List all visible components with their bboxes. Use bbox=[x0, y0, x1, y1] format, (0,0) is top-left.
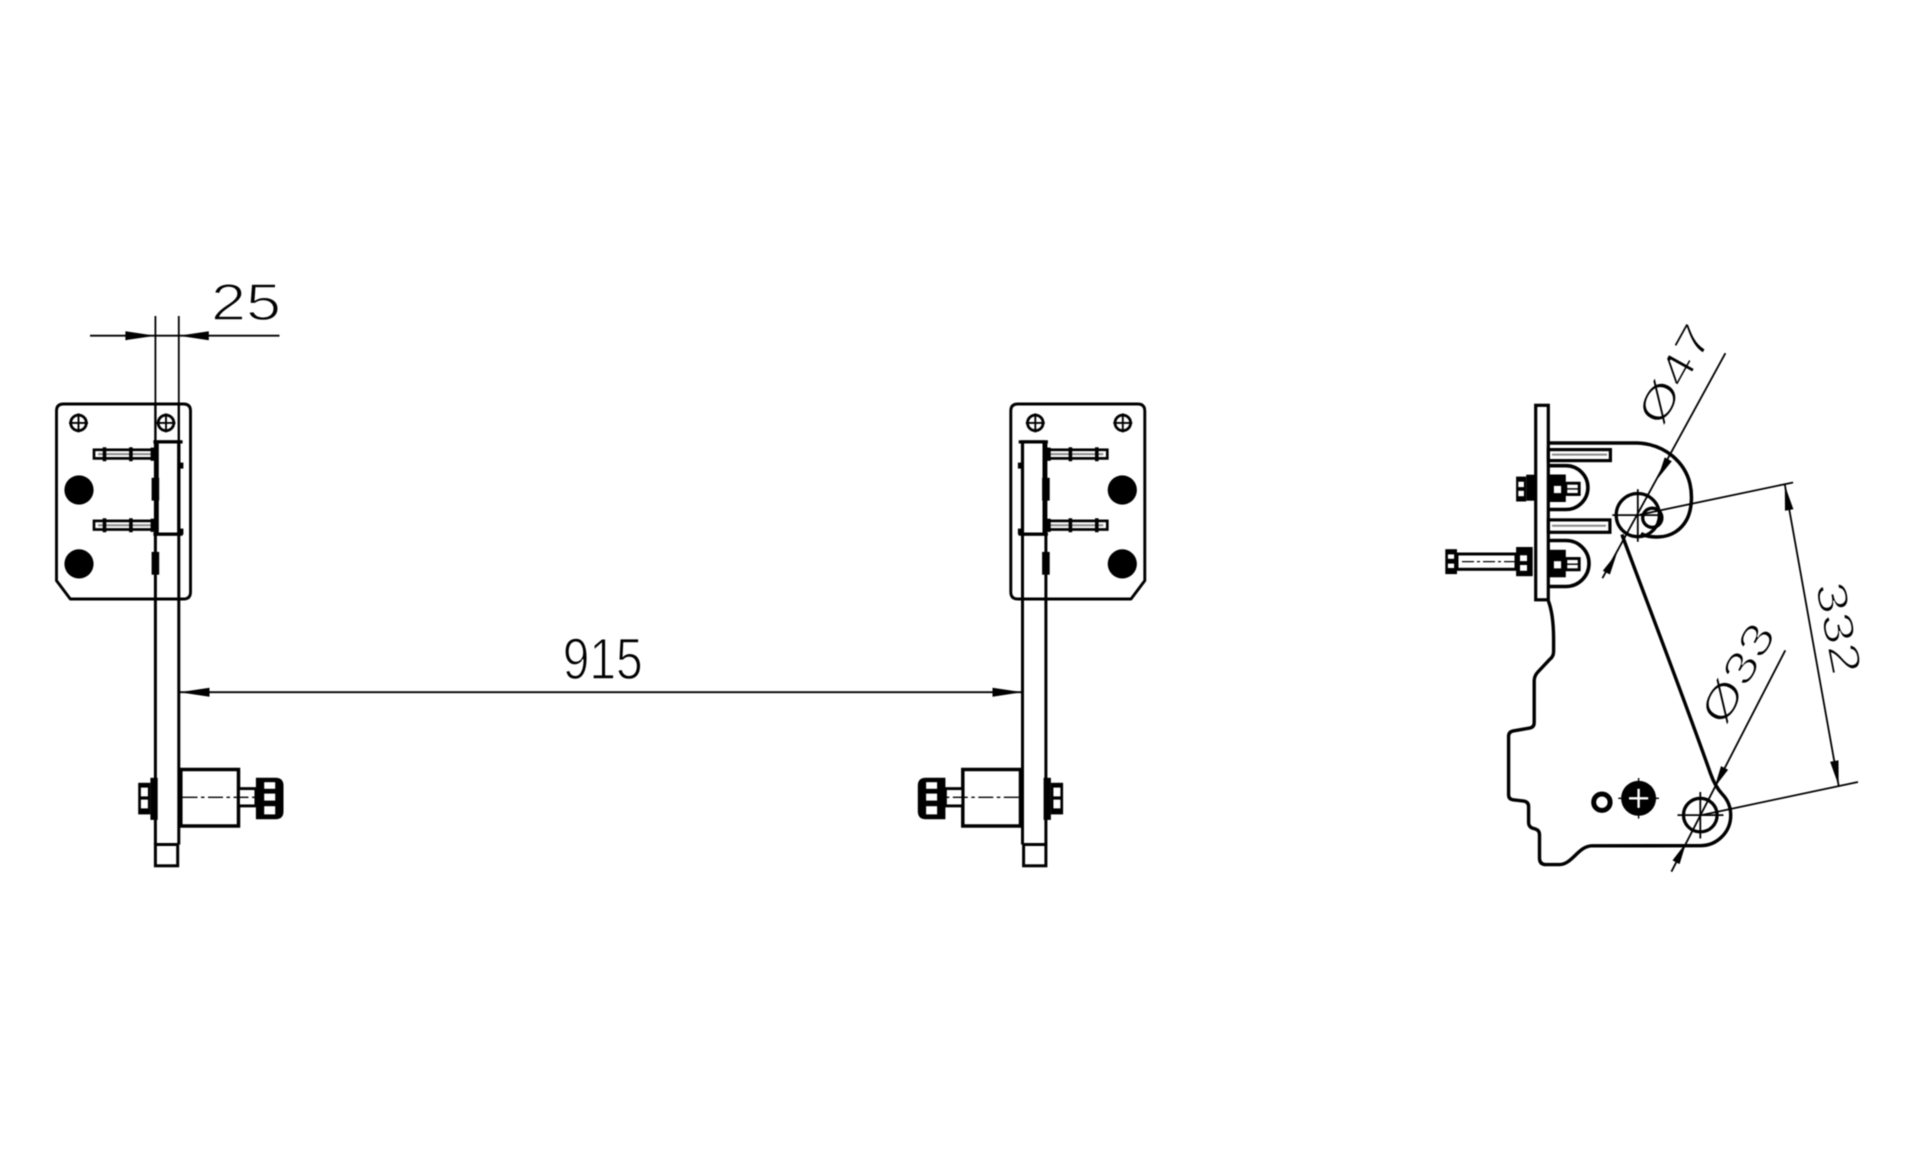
stud end marks right of bar bbox=[179, 463, 184, 469]
side: upper nut on right bbox=[1549, 475, 1566, 503]
side: lower hole centre cross bbox=[1678, 792, 1724, 839]
bar upper section bbox=[155, 404, 178, 442]
dia33 leader line bbox=[1671, 650, 1785, 871]
dia47 leader line bbox=[1602, 353, 1725, 578]
side: lower nut left bbox=[1516, 547, 1533, 576]
vertical flat bar bbox=[155, 442, 178, 845]
side: upper nut left bbox=[1516, 477, 1526, 502]
side: flat bar plate bbox=[1536, 405, 1549, 600]
dim 25 line bbox=[90, 335, 280, 337]
side: hook circle centre cross bbox=[1612, 489, 1659, 541]
side: bracket profile left edge bbox=[1509, 535, 1731, 865]
side: bolt end filled circle bbox=[1621, 781, 1656, 816]
screw top-right bbox=[158, 415, 174, 431]
bolt shank right bbox=[239, 789, 256, 806]
dim 332 extension line 1 bbox=[1640, 483, 1793, 515]
spacer block bbox=[181, 770, 239, 827]
nut and bolt end right bbox=[256, 778, 284, 820]
extension lines of 25 dim bbox=[155, 316, 178, 404]
side: lower bolt shank right bbox=[1566, 559, 1579, 570]
bar foot bbox=[155, 845, 177, 866]
dim 25 arrows bbox=[125, 331, 155, 340]
side: lower rail bbox=[1548, 520, 1610, 532]
centre line bbox=[183, 796, 257, 798]
side: lower hole dia 33 bbox=[1684, 798, 1718, 832]
side: profile top edge and hook outer sweep bbox=[1548, 443, 1691, 537]
bolt head lower bbox=[64, 549, 93, 578]
screw top-left bbox=[71, 415, 87, 431]
dia33 arrows bbox=[1715, 766, 1729, 787]
clamp block behind bar bbox=[157, 442, 179, 534]
washer left bbox=[150, 778, 157, 820]
dim 332 arrows bbox=[1785, 485, 1794, 510]
lower stud rod bbox=[94, 521, 155, 530]
hidden bolt lower (behind bar) bbox=[152, 552, 160, 575]
svg-text:915: 915 bbox=[563, 627, 643, 692]
side: hook seat circle dia 47 bbox=[1616, 493, 1659, 536]
side: upper U-clamp bbox=[1549, 466, 1588, 510]
hidden bolt upper (behind bar) bbox=[152, 478, 160, 501]
dim 332 extension line 2 bbox=[1701, 782, 1858, 815]
bolt head upper bbox=[64, 475, 93, 504]
dia47 arrows bbox=[1658, 457, 1672, 478]
side: lower U-clamp bbox=[1549, 541, 1589, 587]
mounting plate bbox=[57, 404, 191, 599]
svg-text:25: 25 bbox=[211, 274, 281, 332]
side: lower bolt head bbox=[1445, 549, 1457, 574]
side: lower bolt long shank bbox=[1457, 554, 1516, 569]
dim 915 line bbox=[179, 691, 1023, 693]
side: upper bolt shank right bbox=[1566, 483, 1579, 494]
upper stud rod bbox=[94, 450, 155, 459]
jam nut left bbox=[138, 783, 150, 815]
dim 915 arrows bbox=[180, 688, 210, 697]
dim 332 line bbox=[1785, 485, 1839, 787]
side: slot end small ring bbox=[1594, 794, 1610, 810]
side: upper washer left bbox=[1526, 475, 1534, 501]
side: hook inner curl bbox=[1643, 508, 1662, 527]
side: upper rail bbox=[1548, 450, 1610, 461]
side: lower nut on right bbox=[1549, 550, 1566, 578]
